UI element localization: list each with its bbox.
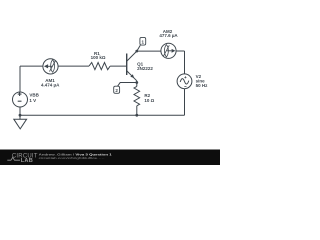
- svg-text:LAB: LAB: [21, 158, 33, 164]
- svg-text:50 Hz: 50 Hz: [196, 83, 209, 88]
- svg-text:circuitlab.com/c/brightbluffic: circuitlab.com/c/brightbluffice·····: [39, 156, 105, 160]
- svg-text:VBB: VBB: [29, 93, 39, 98]
- svg-text:477.6 µA: 477.6 µA: [159, 33, 178, 38]
- svg-text:1 V: 1 V: [29, 98, 36, 103]
- svg-text:10 Ω: 10 Ω: [144, 98, 154, 103]
- svg-text:4.474 µA: 4.474 µA: [41, 82, 60, 87]
- svg-text:2N2222: 2N2222: [137, 66, 153, 71]
- svg-text:100 kΩ: 100 kΩ: [91, 55, 106, 60]
